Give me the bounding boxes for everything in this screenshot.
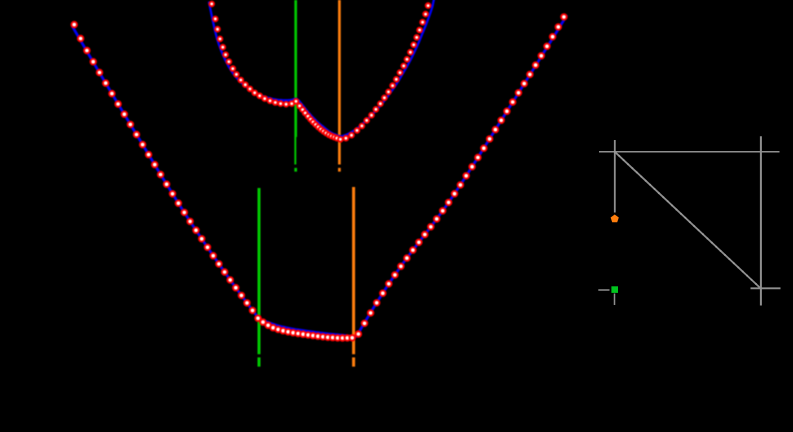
orange vertical line (main plot, right critical point) — [352, 187, 355, 367]
black overlay partly covering inset green line (hidden label) — [296, 137, 298, 165]
diagram left tick at green square — [598, 289, 609, 291]
diagram left vertical axis — [614, 140, 616, 213]
green square marker — [611, 286, 618, 293]
orange vertical line (inset, right critical point) — [338, 0, 341, 172]
diagram right vertical axis — [760, 136, 762, 305]
diagram diagonal dot markers — [614, 151, 616, 153]
main data markers (red circles, white face) — [71, 22, 77, 28]
diagram diagonal line — [615, 152, 761, 288]
black axis overlay notch on main vertical lines — [230, 354, 380, 357]
inset blue fit curve — [209, 0, 435, 136]
black axis overlay notch on inset vertical lines — [280, 164, 360, 167]
green vertical line (main plot, left critical point) — [258, 188, 261, 367]
diagram down tick at green square — [614, 294, 616, 306]
diagram bottom-right tick — [751, 287, 781, 289]
orange pentagon marker — [611, 215, 619, 223]
inset data markers (red circles, white face) — [209, 2, 214, 7]
diagram horizontal top axis — [599, 151, 780, 153]
green vertical line (inset, left critical point) — [294, 0, 297, 172]
main blue fit curve — [72, 16, 566, 336]
